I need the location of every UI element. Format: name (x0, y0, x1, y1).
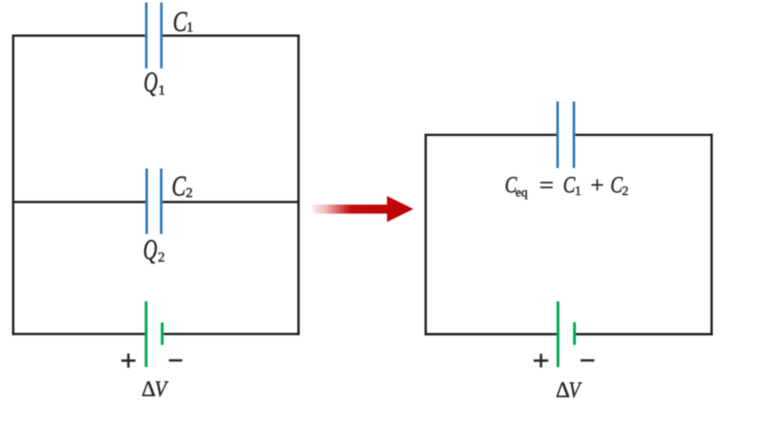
svg-text:C: C (172, 172, 186, 203)
label + (right battery) (534, 354, 549, 368)
svg-text:+: + (590, 172, 604, 197)
wire: left box middle, right of C2 (161, 201, 299, 203)
svg-text:=: = (539, 172, 554, 197)
label C2 (172, 172, 193, 203)
svg-text:2: 2 (622, 183, 629, 198)
capacitor C1 (146, 3, 161, 69)
wire: left box right vertical (297, 35, 299, 336)
svg-text:Q: Q (144, 67, 158, 98)
svg-text:1: 1 (575, 183, 582, 198)
svg-text:2: 2 (158, 250, 165, 265)
wire: right box top, right of Ceq (574, 134, 713, 136)
wire: right box bottom, left of battery (425, 333, 558, 335)
wire: left box top, left of C1 (12, 34, 146, 36)
wire: right box bottom, right of battery (574, 333, 712, 335)
battery ΔV (right) (558, 301, 575, 367)
svg-text:1: 1 (186, 21, 193, 36)
label Q1 (144, 67, 166, 98)
capacitor C2 (147, 169, 162, 235)
label C1 (173, 7, 194, 38)
svg-text:V: V (155, 376, 169, 401)
svg-text:Q: Q (143, 235, 157, 266)
label − (right battery) (581, 359, 595, 361)
label ΔV (left) (142, 376, 169, 401)
battery ΔV (left) (146, 301, 162, 367)
label − (left battery) (169, 359, 182, 361)
arrow (circuit reduction) (313, 196, 414, 222)
label Ceq = C1 + C2 (505, 172, 629, 199)
label ΔV (right) (556, 377, 582, 402)
label Q2 (143, 235, 165, 266)
wire: left box middle, left of C2 (12, 201, 147, 203)
wire: left box top, right of C1 (161, 34, 299, 36)
svg-text:1: 1 (158, 83, 165, 98)
svg-text:2: 2 (186, 186, 193, 201)
label + (left battery) (121, 354, 135, 368)
svg-text:C: C (173, 7, 187, 38)
wire: right box right vertical (710, 134, 712, 335)
wire: left box bottom, left of battery (12, 333, 146, 335)
wire: left box left vertical (12, 35, 14, 336)
capacitor Ceq (558, 102, 574, 169)
svg-text:eq: eq (515, 185, 528, 200)
wire: left box bottom, right of battery (162, 333, 300, 335)
wire: right box top, left of Ceq (425, 134, 558, 136)
wire: right box left vertical (425, 134, 427, 335)
svg-text:Δ: Δ (142, 376, 156, 401)
svg-text:V: V (569, 377, 583, 402)
